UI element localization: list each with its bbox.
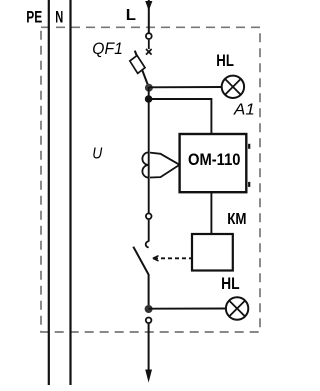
- svg-text:ОМ-110: ОМ-110: [188, 150, 241, 169]
- svg-text:L: L: [126, 7, 136, 24]
- svg-text:HL: HL: [221, 274, 240, 293]
- svg-text:КМ: КМ: [227, 211, 246, 228]
- svg-text:QF1: QF1: [92, 39, 123, 58]
- svg-text:U: U: [92, 146, 103, 163]
- svg-text:PE: PE: [26, 7, 42, 26]
- svg-text:HL: HL: [216, 51, 234, 70]
- svg-text:N: N: [55, 7, 63, 26]
- svg-text:A1: A1: [233, 102, 255, 119]
